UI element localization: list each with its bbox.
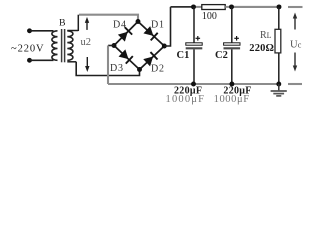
svg-text:D2: D2: [151, 63, 165, 74]
svg-text:D3: D3: [110, 63, 124, 74]
svg-text:1000μF: 1000μF: [166, 94, 206, 105]
svg-text:~220V: ~220V: [11, 43, 45, 54]
svg-text:100: 100: [202, 11, 217, 22]
svg-text:Uc: Uc: [290, 40, 302, 51]
svg-text:D1: D1: [151, 19, 165, 30]
svg-text:C2: C2: [215, 50, 228, 61]
svg-text:1000μF: 1000μF: [214, 94, 250, 105]
svg-text:C1: C1: [177, 50, 190, 61]
svg-text:RL: RL: [260, 30, 272, 41]
svg-text:220Ω: 220Ω: [249, 43, 274, 54]
svg-text:u2: u2: [81, 37, 92, 48]
svg-text:B: B: [59, 18, 66, 29]
svg-text:D4: D4: [113, 20, 127, 31]
